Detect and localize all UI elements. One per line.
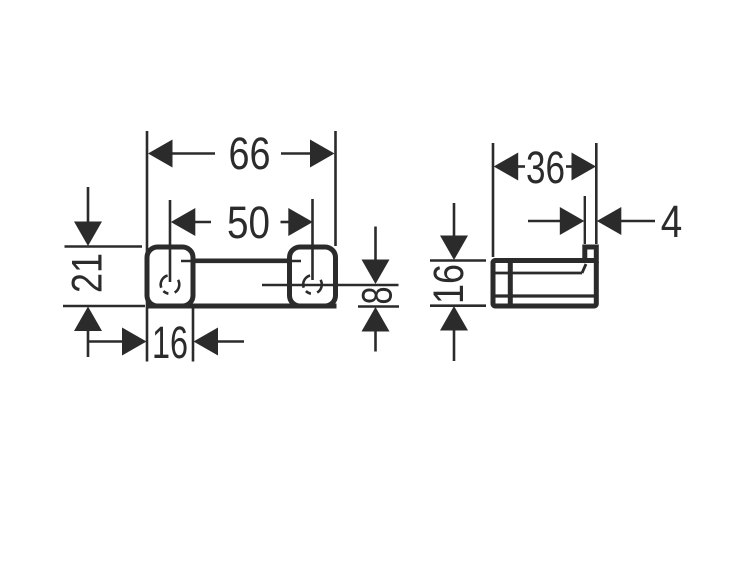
side view inner edge line B xyxy=(494,294,594,297)
dimension 16 shaft right xyxy=(218,340,245,343)
dimension 21 shaft bottom xyxy=(87,331,90,358)
svg-text:8: 8 xyxy=(355,287,402,305)
dimension 21 arrow top xyxy=(74,222,102,247)
wire extension line 4 left xyxy=(584,196,586,244)
dimension side16 shaft top xyxy=(453,203,456,237)
dimension 8 shaft top xyxy=(374,227,377,261)
svg-text:36: 36 xyxy=(526,142,565,193)
dimension 50 arrow right xyxy=(288,208,313,236)
hook left outline xyxy=(147,247,193,306)
dimension 50 shaft left xyxy=(194,221,211,224)
wire extension line 8 bottom xyxy=(358,305,399,308)
wire extension line 36 right xyxy=(595,143,598,244)
side view lip outline xyxy=(585,247,597,261)
svg-text:21: 21 xyxy=(65,253,112,293)
side view inner edge line A xyxy=(494,272,582,275)
dimension 66 arrow left xyxy=(148,140,173,168)
dimension 8 shaft bottom xyxy=(374,331,377,352)
dimension 36 arrow right xyxy=(572,153,597,181)
side view wall plate line xyxy=(508,259,513,309)
svg-text:66: 66 xyxy=(229,128,271,179)
wire center line left hook xyxy=(169,200,172,282)
dimension 16 arrow left xyxy=(122,328,147,356)
wire extension line 21 bottom xyxy=(63,305,145,308)
dimension 4 arrow right xyxy=(597,207,622,235)
wire extension line 16 right xyxy=(192,308,195,362)
dimension 36 arrow left xyxy=(494,153,519,181)
side view chamfer diagonal xyxy=(582,264,586,273)
dimension 66 arrow right xyxy=(310,140,335,168)
dimension 66 shaft right xyxy=(281,152,312,155)
dimension side16 arrow bottom xyxy=(440,306,468,331)
dimension 36 shaft left xyxy=(518,165,526,168)
dimension 8 arrow bottom xyxy=(362,307,390,332)
dimension 16 shaft left xyxy=(89,340,123,343)
wire bar bottom edge xyxy=(146,304,337,309)
side view body outline xyxy=(493,261,596,307)
dimension 8 arrow top xyxy=(362,260,390,285)
wire bar top edge thick xyxy=(194,258,290,263)
dimension 21 arrow bottom xyxy=(74,307,102,332)
dimension 21 shaft top xyxy=(87,187,90,223)
wire extension line side16 bottom xyxy=(430,304,486,307)
svg-text:50: 50 xyxy=(227,197,270,248)
svg-text:16: 16 xyxy=(152,317,188,368)
svg-text:16: 16 xyxy=(426,264,473,304)
svg-text:4: 4 xyxy=(661,196,683,247)
wire extension line left x147 xyxy=(146,131,149,362)
wire bar top edge thin stub line xyxy=(181,260,301,263)
wire extension line 36 left xyxy=(492,143,495,257)
dimension 50 shaft right xyxy=(281,221,290,224)
node center mark left xyxy=(161,276,180,294)
dimension 4 shaft left xyxy=(528,220,561,223)
dimension side16 shaft bottom xyxy=(453,330,456,361)
dimension 36 shaft right xyxy=(566,165,573,168)
dimension 4 shaft right xyxy=(621,220,655,223)
wire center line right hook xyxy=(311,199,314,280)
dimension 50 arrow left xyxy=(171,208,196,236)
wire extension line side16 top xyxy=(430,259,486,262)
node center mark right xyxy=(303,276,322,294)
dimension 66 shaft left xyxy=(171,152,215,155)
dimension 16 arrow right xyxy=(194,328,219,356)
hook right outline xyxy=(290,247,336,306)
wire leader line node 8-top xyxy=(262,284,399,287)
dimension 4 arrow left xyxy=(560,207,585,235)
dimension side16 arrow top xyxy=(440,236,468,261)
wire extension line right x335.5 xyxy=(334,131,337,246)
wire extension line 21 top xyxy=(65,245,143,248)
